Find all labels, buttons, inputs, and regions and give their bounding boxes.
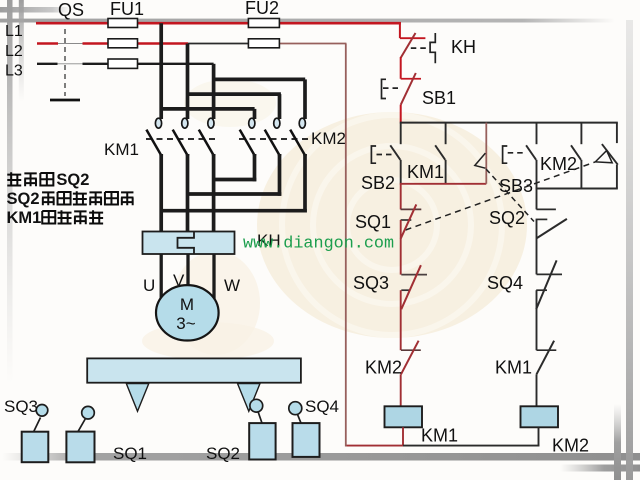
wire node B horizontal (536, 188, 618, 190)
decorative gray bar left vertical short (19, 0, 24, 120)
wire swap A (KM1p3 - KM2p1) (214, 178, 257, 182)
svg-text:L3: L3 (5, 63, 23, 80)
caption line 1: dang tie peng SQ2 (7, 172, 21, 186)
svg-text:KM2: KM2 (311, 129, 346, 148)
wire L2 black segment to FU2 (188, 43, 248, 45)
svg-text:SB2: SB2 (361, 173, 395, 193)
SQ1 linked NC contact top lead (far right) (616, 123, 618, 144)
wire SB1 to bus (400, 105, 402, 123)
thermal contact KH blade (401, 33, 416, 58)
interlock KM1 NC tick (537, 349, 557, 351)
wire L1 red full top (36, 22, 401, 25)
limit switch SQ4 roller (289, 402, 302, 415)
decorative gray bar bottom horizontal short (560, 465, 640, 472)
worktable bar (87, 358, 301, 382)
wire jumper L1 to KM2 pole1 (161, 107, 254, 111)
svg-text:SQ4: SQ4 (487, 273, 523, 293)
fuse FU1 pole1 (108, 19, 138, 28)
limit switch SQ2 lever (258, 412, 262, 424)
decorative gray bar left vertical long (7, 0, 13, 452)
svg-text:W: W (224, 276, 240, 295)
limit switch SQ2 box (249, 423, 275, 459)
wire KM2 pole1 output down (253, 154, 257, 181)
limit switch SQ3 blade (401, 265, 421, 309)
svg-text:KM1: KM1 (495, 358, 532, 378)
svg-text:www.diangon.com: www.diangon.com (243, 235, 394, 254)
wire SQ3 to KM2 NC (400, 290, 402, 350)
contactor KM1 main contact pole3 (208, 118, 214, 128)
svg-text:KM2: KM2 (365, 358, 402, 378)
disconnect switch QS dashed link (64, 29, 66, 96)
decorative gray bar bottom horizontal long (2, 453, 640, 461)
SB2 actuator bracket (371, 146, 376, 163)
SB1 actuator bracket (382, 79, 387, 98)
limit switch SQ3 lever (34, 418, 41, 433)
limit switch SQ4 box (293, 423, 320, 457)
linkage arrow triangle on 486 (475, 153, 486, 168)
KM2 aux blade (571, 145, 581, 160)
wire L3 drop to KM1 pole3 (212, 64, 216, 119)
interlock KM2 NC tick (401, 349, 421, 351)
limit switch SQ3 contact tick1 (401, 274, 427, 276)
wire KM1 coil to bottom (402, 427, 404, 446)
SB3 button blade (526, 145, 536, 160)
svg-text:KM1: KM1 (421, 426, 458, 446)
decorative gray bar right vertical inner (614, 404, 621, 480)
svg-text:SQ2: SQ2 (206, 444, 240, 463)
decorative gray bar right vertical outer (626, 20, 633, 480)
wire KM2 coil to bottom (538, 427, 540, 446)
coil KM2 (521, 406, 559, 427)
dog cam 1 (126, 384, 149, 412)
SB3 linkage dashes (508, 152, 526, 154)
svg-text:SQ1: SQ1 (113, 444, 147, 463)
contactor KM2 main contact pole1 (249, 118, 255, 128)
dog cam 2 (238, 384, 261, 412)
svg-text:KM1: KM1 (7, 209, 42, 227)
limit switch SQ1 blade (401, 204, 417, 238)
linkage dashed SQ2-side (486, 169, 534, 222)
wire L2 red incoming (37, 42, 58, 44)
disconnect switch QS bar (50, 99, 80, 102)
svg-text:SQ4: SQ4 (305, 397, 339, 416)
wire node A down to SQ1 (400, 184, 402, 210)
fuse FU1 pole2 (108, 39, 138, 48)
limit switch SQ3 contact tick2 (401, 289, 410, 291)
thermal relay KH heater box (143, 232, 235, 255)
wire L3 to FU1 and to drop (83, 63, 214, 65)
svg-text:SQ2: SQ2 (7, 190, 40, 208)
limit switch SQ1 lever (78, 419, 86, 432)
limit switch SQ2 tick2 (536, 218, 548, 220)
interlock KM1 NC blade (537, 341, 555, 375)
svg-text:SQ1: SQ1 (355, 212, 391, 232)
svg-text:KM1: KM1 (407, 162, 444, 182)
wire KM2 pole3 output down (303, 154, 307, 212)
wire KM2 pole2 output down (278, 154, 282, 196)
SB3 actuator bracket (503, 146, 508, 163)
KM2 aux bottom lead (580, 160, 582, 189)
thermal contact KH (NC) tick (400, 37, 425, 39)
wire W to motor (212, 254, 215, 299)
limit switch SQ1 contact tick1 (401, 208, 422, 210)
wire L1 drop to KM1 pole1 (159, 23, 163, 119)
wire node A red horizontal (400, 183, 487, 185)
wire L2 red to drop (83, 42, 189, 44)
svg-text:KM2: KM2 (552, 436, 589, 456)
SB3 bottom lead (536, 160, 538, 189)
wire L3 thin QS gap (58, 63, 83, 65)
interlock KM2 NC blade (401, 341, 419, 375)
wire bottom return red (346, 445, 403, 447)
KM1 aux contact blade (435, 145, 445, 160)
decorative gray bar top horizontal long (0, 19, 615, 23)
wire jumper L3 to KM2 pole3 (214, 78, 306, 82)
wire SQ1 to SQ3 (400, 220, 402, 275)
svg-text:KM1: KM1 (104, 140, 139, 159)
svg-text:QS: QS (58, 0, 84, 20)
svg-text:SB1: SB1 (422, 88, 456, 108)
KM1 main linkage dashed (146, 138, 217, 140)
wire L3 black incoming (37, 63, 58, 65)
SB2 linkage dashes (377, 154, 395, 156)
control bus top (400, 122, 618, 124)
wire FU2 left feed down (345, 44, 347, 447)
limit switch SQ1 box (66, 432, 94, 463)
limit switch SQ3 box (22, 432, 49, 463)
SQ1 linked NC bottom lead (616, 165, 618, 189)
wire bottom return black (403, 445, 539, 447)
KH actuator paddle (430, 33, 435, 63)
SB1 linkage dashes (383, 87, 402, 89)
svg-text:FU2: FU2 (245, 0, 279, 18)
start button SB2 bottom lead (400, 160, 402, 184)
coil KM1 (385, 406, 423, 427)
limit switch SQ4 tick1 (537, 273, 563, 275)
fuse FU1 pole3 (108, 59, 138, 68)
svg-text:SQ2: SQ2 (56, 171, 89, 189)
KH linkage dashes (411, 47, 429, 49)
KM2 main linkage dashed (239, 138, 310, 140)
limit switch SQ2 blade (536, 219, 567, 239)
linkage dashed SQ1 to right contact (406, 162, 595, 230)
wire SQ4 to KM1 NC (536, 290, 538, 350)
wire swap C (KM1p1 - KM2p3) (161, 209, 307, 213)
wire jumper L2 to KM2 pole2 (188, 92, 281, 96)
wire SQ2 to SQ4 (536, 219, 538, 274)
wire U to motor (160, 254, 163, 298)
decorative watermark blob (257, 112, 527, 338)
svg-text:SQ3: SQ3 (4, 397, 38, 416)
svg-text:U: U (143, 276, 155, 295)
wire KM1 pole2 output down (186, 154, 190, 233)
wire node B down to SQ2 (536, 189, 538, 210)
limit switch SQ4 blade (536, 260, 556, 309)
limit switch SQ2 roller (250, 399, 263, 412)
limit switch SQ1 contact tick2 (401, 219, 412, 221)
contactor KM1 main contact pole2 (182, 118, 188, 128)
KM1 aux contact top lead (445, 123, 447, 145)
wire KM2 NC to KM1 coil (400, 374, 402, 406)
limit switch SQ4 lever (298, 414, 302, 423)
limit switch SQ3 roller (36, 405, 48, 417)
start button SB2 blade (390, 145, 400, 160)
wire L2 thin QS gap (58, 43, 83, 45)
svg-text:FU1: FU1 (110, 0, 144, 19)
KM2 aux top lead (580, 123, 582, 145)
KH heater notch symbol (178, 232, 195, 254)
KM1 aux bottom lead (445, 160, 447, 184)
contactor KM2 main contact pole2 (274, 118, 280, 128)
SQ1 linkage arrow triangle (595, 151, 612, 163)
SQ1 linked NC blade (602, 144, 618, 165)
stop button SB1 blade (401, 73, 416, 105)
wire KH to SB1 (400, 57, 402, 79)
wire swap B (KM1p2 - KM2p2) (188, 192, 282, 196)
wire KM1 pole3 output down (212, 154, 216, 233)
svg-text:3~: 3~ (176, 314, 195, 333)
fuse FU2 lower (L2 control feed) (248, 39, 279, 48)
stop button SB1 tick (401, 78, 421, 80)
limit switch SQ4 tick2 (536, 289, 547, 291)
svg-text:SQ3: SQ3 (353, 273, 389, 293)
SB3 button contact top lead (536, 123, 538, 145)
svg-text:M: M (180, 295, 194, 314)
svg-text:SQ2: SQ2 (489, 208, 525, 228)
wire V to motor (186, 254, 189, 286)
node L1 corner down to control (399, 22, 401, 38)
wire L2 drop to KM1 pole2 (186, 44, 190, 120)
svg-text:KH: KH (451, 37, 476, 57)
wire KM1 pole1 output down (159, 154, 163, 233)
motor M 3~ (156, 285, 219, 340)
contactor KM1 main contact pole1 (155, 118, 161, 128)
wire bus drop at 486 (485, 123, 487, 184)
svg-text:L2: L2 (5, 43, 23, 60)
svg-text:L1: L1 (5, 23, 23, 40)
limit switch SQ2 tick1 (536, 208, 556, 210)
wire KM1 NC to KM2 coil (536, 374, 538, 406)
fuse FU2 upper (L1 control feed) (248, 19, 279, 28)
svg-text:KM2: KM2 (540, 154, 577, 174)
contactor KM2 main contact pole3 (299, 118, 305, 128)
wire FU2 output dark red to right feed (280, 43, 347, 45)
decorative gray bar top-left horizontal (0, 7, 70, 13)
start button SB2 top lead (400, 123, 402, 145)
limit switch SQ1 roller (82, 406, 95, 419)
